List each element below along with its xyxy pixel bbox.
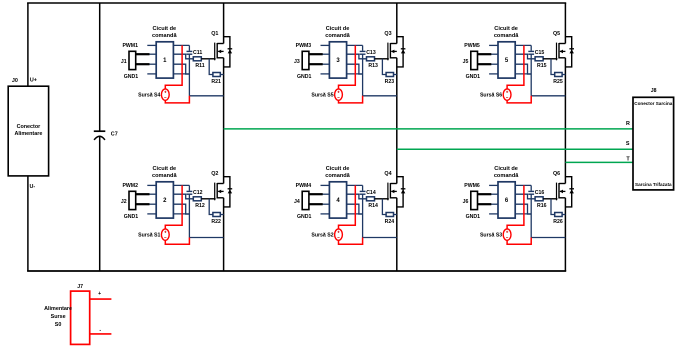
resistor R21 xyxy=(213,73,220,77)
body diode of Q4 xyxy=(397,177,406,207)
label Cicuit de comanda (cell 3) xyxy=(325,26,350,39)
wire C14 to gate-drive return (vertical) xyxy=(362,194,364,237)
wire J5 pin 2 to driver xyxy=(478,63,492,65)
wire driver 6 pin 6 (output) to R16 xyxy=(515,194,535,199)
body diode of Q6 xyxy=(565,177,574,207)
wire R23 to source of Q3 xyxy=(394,74,397,76)
wire gate node to R26 xyxy=(551,199,555,215)
label Alimentare Surse S0 xyxy=(44,306,72,328)
svg-text:+: + xyxy=(98,291,101,297)
wire driver 5 pin 8 stub xyxy=(515,73,531,75)
connector J7 Alimentare Surse S0 xyxy=(71,291,90,344)
wire capacitor C7 branch top xyxy=(99,3,101,131)
wire phase leg 1 bottom segment xyxy=(223,198,225,271)
wire J6 pin 2 to driver xyxy=(478,203,492,205)
wire phase leg 2 middle segment xyxy=(396,58,398,184)
wire J5 pin 1 to driver xyxy=(478,53,492,55)
svg-text:PWM1: PWM1 xyxy=(122,43,138,49)
svg-text:R16: R16 xyxy=(537,203,547,209)
svg-text:Q6: Q6 xyxy=(553,171,560,177)
wire source - (Sursă S6) xyxy=(507,96,531,103)
wire source + (Sursă S5) xyxy=(339,45,356,89)
wire J2 pin 1 to driver xyxy=(136,193,150,195)
resistor R15 xyxy=(535,57,543,61)
svg-text:J6: J6 xyxy=(463,199,469,205)
driver IC 5 left pin stubs xyxy=(489,45,498,74)
transistor Q2 xyxy=(215,183,224,201)
svg-text:C16: C16 xyxy=(535,190,545,196)
svg-text:R15: R15 xyxy=(537,63,547,69)
resistor R14 xyxy=(367,197,375,201)
wire phase leg 1 drain segment xyxy=(223,3,225,44)
svg-text:GND1: GND1 xyxy=(297,74,312,80)
transistor Q3 xyxy=(388,43,397,61)
wire driver 4 pin 6 (output) to R14 xyxy=(347,194,367,199)
wire gate-drive return to phase leg xyxy=(363,237,397,239)
wire source - (Sursă S5) xyxy=(339,96,363,103)
capacitor C12 xyxy=(187,185,193,194)
svg-text:R24: R24 xyxy=(385,219,395,225)
svg-text:comandă: comandă xyxy=(325,33,350,39)
wire gate of Q6 xyxy=(543,198,557,200)
wire C16 to gate-drive return (vertical) xyxy=(530,194,532,237)
driver IC 1 left pin stubs xyxy=(147,45,156,74)
svg-text:PWM5: PWM5 xyxy=(464,43,480,49)
wire C15 to gate-drive return (vertical) xyxy=(530,54,532,96)
svg-text:GND1: GND1 xyxy=(466,214,481,220)
svg-text:PWM4: PWM4 xyxy=(296,183,312,189)
wire driver 2 pin 6 (output) to R12 xyxy=(173,194,193,199)
svg-text:J1: J1 xyxy=(121,59,127,65)
svg-text:Cicuit de: Cicuit de xyxy=(326,166,350,172)
wire source + (Sursă S1) xyxy=(165,185,182,229)
wire driver 5 pin 7 stub xyxy=(515,64,531,74)
wire gate of Q3 xyxy=(375,58,389,60)
label Cicuit de comanda (cell 1) xyxy=(152,26,177,39)
wire gate-drive return to phase leg xyxy=(189,237,223,239)
svg-text:R26: R26 xyxy=(553,219,563,225)
wire gate-drive return to phase leg xyxy=(531,95,565,97)
wire source - (Sursă S2) xyxy=(339,238,363,245)
svg-text:R25: R25 xyxy=(553,79,563,85)
wire J7 negative lead xyxy=(90,333,112,335)
svg-text:J5: J5 xyxy=(463,59,469,65)
label Cicuit de comanda (cell 6) xyxy=(494,166,519,179)
wire J6 pin 1 to driver xyxy=(478,193,492,195)
svg-text:R23: R23 xyxy=(385,79,395,85)
wire driver 3 pin 6 (output) to R13 xyxy=(347,54,367,59)
svg-text:Conector Sarcina: Conector Sarcina xyxy=(634,101,672,106)
svg-text:J0: J0 xyxy=(12,78,18,84)
wire phase leg 1 middle segment xyxy=(223,58,225,184)
wire gate node to R21 xyxy=(209,59,213,75)
wire driver 5 pin 6 (output) to R15 xyxy=(515,54,535,59)
source Sursă S4 xyxy=(161,89,169,100)
wire J2 pin 2 to driver xyxy=(136,203,150,205)
wire J1 pin 2 to driver xyxy=(136,63,150,65)
body diode of Q2 xyxy=(224,177,233,207)
svg-text:R21: R21 xyxy=(211,79,221,85)
wire driver 4 pin 5 (supply) to C14 xyxy=(347,184,363,186)
wire J3 pin 1 to driver xyxy=(309,53,323,55)
connector J5 xyxy=(471,51,478,69)
capacitor C13 xyxy=(360,45,366,54)
wire driver 1 pin 6 (output) to R11 xyxy=(173,54,193,59)
svg-text:J7: J7 xyxy=(77,284,83,290)
svg-text:J8: J8 xyxy=(651,88,657,94)
connector J0 Conector Alimentare xyxy=(8,86,48,176)
wire phase leg 3 middle segment xyxy=(564,58,566,184)
svg-text:comandă: comandă xyxy=(494,33,519,39)
svg-text:Conector: Conector xyxy=(17,124,42,130)
wire gate-drive return to phase leg xyxy=(531,237,565,239)
wire phase T output xyxy=(565,161,633,163)
transistor Q1 xyxy=(215,43,224,61)
wire phase R output xyxy=(224,128,633,130)
svg-text:GND1: GND1 xyxy=(297,214,312,220)
capacitor C7 xyxy=(94,131,106,140)
svg-text:Cicuit de: Cicuit de xyxy=(152,166,176,172)
wire source + (Sursă S4) xyxy=(165,45,182,89)
wire driver 4 pin 8 stub xyxy=(347,213,363,215)
svg-text:C7: C7 xyxy=(111,131,118,137)
wire driver 4 pin 7 stub xyxy=(347,204,363,214)
connector J4 xyxy=(302,191,309,209)
svg-text:J2: J2 xyxy=(121,199,127,205)
svg-text:Surse: Surse xyxy=(51,314,66,320)
svg-text:PWM3: PWM3 xyxy=(296,43,312,49)
wire C13 to gate-drive return (vertical) xyxy=(362,54,364,96)
capacitor C15 xyxy=(528,45,534,54)
svg-text:S0: S0 xyxy=(55,322,62,328)
wire driver 2 pin 5 (supply) to C12 xyxy=(173,184,189,186)
wire gate node to R22 xyxy=(209,199,213,215)
svg-text:-: - xyxy=(99,327,101,333)
svg-text:C13: C13 xyxy=(366,50,376,56)
wire gate of Q5 xyxy=(543,58,557,60)
svg-text:R: R xyxy=(626,121,630,127)
wire gate of Q4 xyxy=(375,198,389,200)
svg-text:Q3: Q3 xyxy=(384,31,391,37)
svg-text:J3: J3 xyxy=(294,59,300,65)
svg-text:Q2: Q2 xyxy=(211,171,218,177)
wire driver 2 pin 7 stub xyxy=(173,204,189,214)
svg-text:U+: U+ xyxy=(30,77,37,83)
connector J2 xyxy=(129,191,136,209)
driver IC 4 left pin stubs xyxy=(321,185,330,214)
wire source - (Sursă S3) xyxy=(507,238,531,245)
wire phase leg 2 drain segment xyxy=(396,3,398,44)
wire gate of Q2 xyxy=(201,198,215,200)
wire gate-drive return to phase leg xyxy=(189,95,223,97)
wire phase leg 3 bottom segment xyxy=(564,198,566,271)
svg-text:R12: R12 xyxy=(195,203,205,209)
svg-text:Sursă S4: Sursă S4 xyxy=(138,93,160,99)
wire source + (Sursă S6) xyxy=(507,45,524,89)
wire source + (Sursă S3) xyxy=(507,185,524,229)
wire driver 5 pin 5 (supply) to C15 xyxy=(515,44,531,46)
wire gate of Q1 xyxy=(201,58,215,60)
driver IC 3 left pin stubs xyxy=(321,45,330,74)
svg-text:Sursă S3: Sursă S3 xyxy=(480,233,502,239)
svg-text:R14: R14 xyxy=(368,203,378,209)
svg-text:Sursă S6: Sursă S6 xyxy=(480,93,502,99)
source Sursă S5 xyxy=(335,89,343,100)
driver IC 1 xyxy=(156,42,173,78)
wire gate-drive return to phase leg xyxy=(363,95,397,97)
wire R25 to source of Q5 xyxy=(562,74,565,76)
connector J1 xyxy=(129,51,136,69)
svg-text:Sursă S2: Sursă S2 xyxy=(311,233,333,239)
wire top DC bus U+ xyxy=(27,2,566,4)
resistor R13 xyxy=(367,57,375,61)
label Cicuit de comanda (cell 2) xyxy=(152,166,177,179)
svg-text:J4: J4 xyxy=(294,199,300,205)
body diode of Q5 xyxy=(565,37,574,67)
driver IC 5 xyxy=(498,42,515,78)
svg-text:PWM2: PWM2 xyxy=(122,183,138,189)
label Cicuit de comanda (cell 4) xyxy=(325,166,350,179)
wire J1 pin 1 to driver xyxy=(136,53,150,55)
wire driver 1 pin 7 stub xyxy=(173,64,189,74)
svg-text:GND1: GND1 xyxy=(466,74,481,80)
resistor R22 xyxy=(213,213,220,217)
source Sursă S1 xyxy=(161,229,169,240)
wire driver 1 pin 8 stub xyxy=(173,73,189,75)
svg-text:Q4: Q4 xyxy=(384,171,391,177)
wire driver 3 pin 5 (supply) to C13 xyxy=(347,44,363,46)
wire J4 pin 1 to driver xyxy=(309,193,323,195)
driver IC 6 xyxy=(498,182,515,218)
svg-text:comandă: comandă xyxy=(494,173,519,179)
svg-text:Cicuit de: Cicuit de xyxy=(326,26,350,32)
svg-text:comandă: comandă xyxy=(325,173,350,179)
driver IC 6 left pin stubs xyxy=(489,185,498,214)
connector J6 xyxy=(471,191,478,209)
wire driver 3 pin 8 stub xyxy=(347,73,363,75)
svg-text:Q1: Q1 xyxy=(211,31,218,37)
wire capacitor C7 branch bottom xyxy=(99,136,101,271)
wire phase S output xyxy=(397,148,633,150)
svg-text:Cicuit de: Cicuit de xyxy=(494,166,518,172)
wire J4 pin 2 to driver xyxy=(309,203,323,205)
svg-text:U-: U- xyxy=(29,184,35,190)
wire driver 1 pin 5 (supply) to C11 xyxy=(173,44,189,46)
resistor R16 xyxy=(535,197,543,201)
source Sursă S6 xyxy=(503,89,511,100)
capacitor C16 xyxy=(528,185,534,194)
wire source + (Sursă S2) xyxy=(339,185,356,229)
wire bottom DC bus U- xyxy=(27,270,566,272)
driver IC 2 xyxy=(156,182,173,218)
wire phase leg 3 drain segment xyxy=(564,3,566,44)
wire driver 2 pin 8 stub xyxy=(173,213,189,215)
svg-text:GND1: GND1 xyxy=(124,214,139,220)
svg-text:Cicuit de: Cicuit de xyxy=(494,26,518,32)
wire driver 6 pin 5 (supply) to C16 xyxy=(515,184,531,186)
svg-text:Sursă S5: Sursă S5 xyxy=(311,93,333,99)
wire J7 positive lead xyxy=(90,298,112,300)
wire C12 to gate-drive return (vertical) xyxy=(188,194,190,237)
driver IC 2 left pin stubs xyxy=(147,185,156,214)
svg-text:R11: R11 xyxy=(195,63,204,69)
resistor R26 xyxy=(555,213,562,217)
capacitor C14 xyxy=(360,185,366,194)
transistor Q6 xyxy=(557,183,566,201)
svg-text:R22: R22 xyxy=(211,219,221,225)
svg-text:C14: C14 xyxy=(366,190,376,196)
resistor R23 xyxy=(386,73,393,77)
svg-text:PWM6: PWM6 xyxy=(464,183,480,189)
resistor R11 xyxy=(193,57,201,61)
source Sursă S3 xyxy=(503,229,511,240)
wire driver 6 pin 7 stub xyxy=(515,204,531,214)
resistor R24 xyxy=(386,213,393,217)
wire J0 top lead xyxy=(27,3,29,86)
connector J8 Conector Sarcina / Sarcina Trifazata xyxy=(633,97,674,190)
wire R24 to source of Q4 xyxy=(394,214,397,216)
transistor Q5 xyxy=(557,43,566,61)
svg-text:Alimentare: Alimentare xyxy=(44,306,72,312)
source Sursă S2 xyxy=(335,229,343,240)
wire R22 to source of Q2 xyxy=(220,214,223,216)
svg-text:comandă: comandă xyxy=(152,173,177,179)
wire R21 to source of Q1 xyxy=(220,74,223,76)
svg-text:C12: C12 xyxy=(193,190,203,196)
wire gate node to R23 xyxy=(382,59,386,75)
svg-text:Sarcina Trifazata: Sarcina Trifazata xyxy=(635,182,672,187)
wire J3 pin 2 to driver xyxy=(309,63,323,65)
wire phase leg 2 bottom segment xyxy=(396,198,398,271)
svg-text:comandă: comandă xyxy=(152,33,177,39)
label Cicuit de comanda (cell 5) xyxy=(494,26,519,39)
svg-text:C15: C15 xyxy=(535,50,545,56)
driver IC 4 xyxy=(329,182,346,218)
resistor R12 xyxy=(193,197,201,201)
transistor Q4 xyxy=(388,183,397,201)
wire driver 6 pin 8 stub xyxy=(515,213,531,215)
resistor R25 xyxy=(555,73,562,77)
svg-text:C11: C11 xyxy=(193,50,202,56)
wire source - (Sursă S1) xyxy=(165,238,189,245)
wire gate node to R25 xyxy=(551,59,555,75)
wire source - (Sursă S4) xyxy=(165,96,189,103)
wire R26 to source of Q6 xyxy=(562,214,565,216)
svg-text:Alimentare: Alimentare xyxy=(14,131,42,137)
wire driver 3 pin 7 stub xyxy=(347,64,363,74)
svg-text:R13: R13 xyxy=(368,63,378,69)
connector J3 xyxy=(302,51,309,69)
svg-text:Cicuit de: Cicuit de xyxy=(152,26,176,32)
svg-text:Sursă S1: Sursă S1 xyxy=(138,233,160,239)
body diode of Q3 xyxy=(397,37,406,67)
driver IC 3 xyxy=(329,42,346,78)
body diode of Q1 xyxy=(224,37,233,67)
wire C11 to gate-drive return (vertical) xyxy=(188,54,190,96)
svg-text:S: S xyxy=(626,141,630,147)
capacitor C11 xyxy=(187,45,193,54)
svg-text:GND1: GND1 xyxy=(124,74,139,80)
wire gate node to R24 xyxy=(382,199,386,215)
wire J0 bottom lead xyxy=(27,176,29,271)
svg-text:Q5: Q5 xyxy=(553,31,560,37)
